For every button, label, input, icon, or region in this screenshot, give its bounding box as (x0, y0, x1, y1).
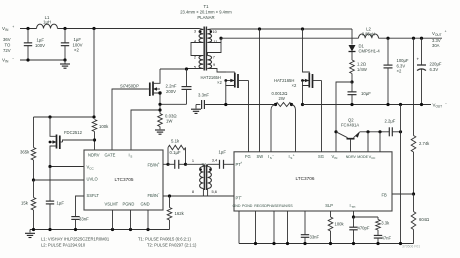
svg-text:1µF: 1µF (37, 38, 45, 43)
junction sync drain drop (301, 27, 304, 30)
label 1.2ohm 1/4W (357, 62, 367, 72)
pin ITH (350, 203, 356, 209)
svg-text:10µF: 10µF (361, 91, 371, 96)
junction sense right (290, 103, 293, 106)
svg-text:23.4mm × 20.1mm × 9.4mm: 23.4mm × 20.1mm × 9.4mm (180, 9, 232, 14)
resistor 5.1k (168, 145, 186, 164)
wire primary gnd rail (30, 229, 170, 231)
wire pin10 net (212, 28, 353, 30)
capacitor C-in2 1uF 100V x2 (61, 29, 69, 61)
pin FB/IN+ 3705 (148, 162, 160, 168)
svg-text:2W: 2W (279, 96, 285, 101)
junction bias node (350, 80, 353, 83)
svg-text:2.74k: 2.74k (419, 141, 430, 146)
label C-in1 (35, 38, 45, 48)
svg-text:SG: SG (318, 154, 324, 159)
svg-text:NDRV: NDRV (346, 155, 357, 159)
svg-text:MODE: MODE (357, 155, 368, 159)
label 10uF (361, 91, 371, 96)
label C-in2 (73, 37, 83, 53)
svg-text:−: − (445, 101, 447, 105)
svg-text:CMPSH1-4: CMPSH1-4 (359, 49, 381, 54)
label 3.3k (381, 221, 390, 226)
svg-text:GND: GND (233, 204, 241, 208)
label D1 (359, 44, 381, 54)
svg-text:72V: 72V (3, 48, 11, 53)
wire VCC drop (379, 132, 381, 152)
T2 pin34 label (212, 158, 218, 163)
svg-text:S: S (130, 155, 132, 159)
ground VIN- (60, 60, 70, 68)
svg-text:UVLO: UVLO (87, 176, 98, 181)
svg-text:+: + (417, 56, 420, 61)
label 5.1k (171, 139, 180, 144)
junction sense left (274, 103, 277, 106)
transistor FDC2512 (49, 117, 95, 167)
svg-text:FB/IN: FB/IN (148, 193, 159, 198)
pin SLP (325, 203, 333, 208)
T2 phase dot left (200, 168, 202, 170)
label sense (272, 91, 288, 101)
wire pin10 to D1 (351, 29, 353, 45)
svg-text:−: − (158, 192, 160, 196)
wire IS+ kelvin (292, 105, 296, 152)
svg-text:PLANAR: PLANAR (197, 15, 214, 20)
label Q2 FCX491A (341, 117, 359, 127)
label HAT2165H x2 FG (201, 75, 223, 85)
wire SW drop (259, 29, 261, 152)
wire L1 to T1 pin3 (58, 28, 200, 30)
junction 162k tap (168, 194, 171, 197)
wire VIN drop to node (93, 29, 95, 118)
svg-text:1W: 1W (166, 119, 173, 124)
wire to T2 primary top (186, 164, 204, 166)
junction SW drop (258, 27, 261, 30)
svg-text:+: + (12, 25, 14, 29)
svg-text:3,4: 3,4 (212, 158, 218, 163)
junction r3 (286, 242, 289, 245)
label 3.3V 30A (432, 38, 441, 48)
capacitor 0.1uF (168, 160, 186, 169)
svg-text:100V: 100V (35, 43, 45, 48)
junction rail 1uF (48, 228, 51, 231)
junction node-FDC drain (48, 115, 51, 118)
svg-text:30A: 30A (432, 43, 440, 48)
svg-text:36V: 36V (3, 37, 11, 42)
pin FG (245, 154, 251, 159)
svg-text:7: 7 (213, 55, 215, 60)
svg-text:33nF: 33nF (79, 217, 89, 222)
svg-text:1µH: 1µH (43, 19, 51, 24)
wire T2 left bottom (202, 189, 204, 197)
junction UVLO (32, 178, 35, 181)
junction NDRV gate-drive (93, 138, 96, 141)
junction divider top (412, 37, 415, 40)
op-amp U2 LTC3706 box (234, 152, 392, 211)
label 100uF (397, 58, 409, 74)
transistor Q-FG HAT2165H (224, 72, 248, 105)
svg-text:REGSD: REGSD (254, 204, 267, 208)
pin 9 label (213, 62, 215, 67)
junction VCC cap (48, 165, 51, 168)
wire FBIN+ line (163, 163, 168, 165)
svg-text:−: − (240, 194, 242, 198)
svg-text:GND: GND (141, 201, 150, 206)
svg-text:PGND: PGND (123, 201, 135, 206)
svg-text:LTC3706: LTC3706 (296, 176, 315, 181)
junction 100uF top (386, 37, 389, 40)
label T1 (203, 4, 209, 9)
label 220uF (430, 62, 442, 72)
label 33nF RUNSS (310, 235, 320, 240)
resistor 100k primary (92, 120, 97, 132)
svg-text:×2: ×2 (397, 69, 402, 74)
label FDC2512 (64, 130, 83, 135)
ground 3.3nF (191, 105, 201, 114)
transistor Q2 FCX491A (336, 132, 360, 152)
svg-text:0.1µF: 0.1µF (170, 150, 181, 155)
transformer T1 primary winding 3-4 (199, 30, 203, 43)
label L2 (362, 27, 375, 37)
pin REGSD (254, 204, 267, 208)
junction FB (412, 192, 415, 195)
svg-text:5.1k: 5.1k (171, 139, 180, 144)
capacitor 33nF SSFLT (71, 196, 84, 230)
pin VCC 3706 (369, 154, 376, 160)
wire PGND3706 down (255, 211, 257, 244)
ground primary rail (25, 230, 35, 238)
svg-text:2.2µF: 2.2µF (385, 119, 396, 124)
wire 1.2ohm to bias node (351, 74, 353, 83)
label 33nF SSFLT (79, 217, 89, 222)
pin NDRV (88, 153, 100, 158)
svg-text:FDC2512: FDC2512 (64, 130, 83, 135)
wire IS sense (131, 110, 160, 150)
junction r5 (329, 242, 332, 245)
wire secondary gnd rail right (303, 104, 432, 106)
pin MODE (357, 155, 368, 159)
capacitor 1uF PT (215, 160, 228, 169)
transformer T2 winding 1-8 (200, 167, 204, 189)
junction VIN+ C1 (26, 27, 29, 30)
svg-text:1: 1 (192, 158, 194, 163)
svg-text:GATE: GATE (105, 153, 116, 158)
svg-text:LTC3705: LTC3705 (115, 177, 134, 182)
label 1uF PT (219, 149, 227, 154)
junction VIN+ C2 (63, 27, 66, 30)
svg-text:365k: 365k (20, 150, 30, 155)
label 604 (419, 217, 429, 222)
junction VIN- C2 (63, 58, 66, 61)
junction 220uF top (420, 37, 423, 40)
pin VIN 3706 (332, 154, 338, 160)
resistor 1.2ohm (350, 60, 355, 74)
transformer T1 core (204, 27, 206, 71)
pin 3 label (194, 29, 196, 34)
resistor 604 (411, 194, 416, 230)
pin UVLO (87, 176, 98, 181)
pin 2 label (194, 55, 196, 60)
label HAT2165H x2 SG (274, 78, 297, 88)
svg-text:162k: 162k (175, 211, 185, 216)
junction Q2 collector (334, 130, 337, 133)
wire T1 pin3 lead (199, 29, 203, 30)
wire 2.74k to FB (413, 152, 415, 194)
capacitor 2.2uF (387, 127, 401, 136)
pin SG (318, 154, 324, 159)
wire GND3706 down (238, 211, 240, 244)
capacitor 1uF VCC (46, 167, 54, 230)
wire centertap up (220, 38, 222, 42)
junction 220uF gnd (420, 103, 423, 106)
capacitor 10uF (348, 82, 357, 105)
svg-text:+: + (240, 161, 242, 165)
node VIN- label (2, 57, 14, 64)
capacitor C-in1 1uF 100V (24, 29, 32, 61)
junction gnddrop top (399, 103, 402, 106)
transformer T1 secondary winding 10-11 (207, 30, 211, 43)
inductor L1 (37, 24, 58, 28)
svg-text:PHASE: PHASE (267, 204, 280, 208)
wire drain node (160, 68, 187, 70)
svg-text:FG: FG (245, 154, 251, 159)
svg-text:FCX491A: FCX491A (341, 122, 359, 127)
label 2.74k (419, 141, 430, 146)
capacitor 47nF (374, 230, 382, 244)
svg-text:PGND: PGND (242, 204, 253, 208)
resistor 15k (31, 180, 36, 230)
wire T1 pin5 lead (187, 68, 204, 71)
T2 pin1 label (192, 158, 194, 163)
svg-text:3.3nF: 3.3nF (198, 93, 209, 98)
transformer T2 winding 3,4-5,6 (208, 167, 212, 189)
node VOUT+ label (432, 30, 447, 37)
junction SG source rail (301, 103, 304, 106)
ground 0.03ohm (155, 127, 165, 135)
junction fb rc right (184, 163, 187, 166)
transformer T1 primary winding 2-5 (199, 56, 203, 69)
svg-text:100k: 100k (335, 222, 345, 227)
svg-text:VSLMT: VSLMT (105, 201, 119, 206)
svg-text:×2: ×2 (292, 83, 297, 88)
svg-text:3.3k: 3.3k (381, 221, 390, 226)
T2 pin56 label (212, 189, 217, 194)
label LTC3705 (115, 177, 134, 182)
wire T1 pin11 centertap jog (207, 43, 221, 56)
junction r1 (254, 242, 257, 245)
wire centertap rail (221, 37, 359, 39)
inductor L2 (359, 34, 379, 38)
junction fb rc left (166, 163, 169, 166)
resistor 100k SLP (328, 211, 333, 244)
svg-text:+: + (158, 162, 160, 166)
wire divider drop (413, 38, 415, 135)
svg-text:2.2nF: 2.2nF (166, 83, 177, 88)
svg-text:FB/IN: FB/IN (148, 163, 159, 168)
transformer T1 secondary winding 7-9 (207, 56, 211, 69)
svg-text:6.3V: 6.3V (430, 67, 439, 72)
wire bias to VIN pin (336, 82, 352, 152)
junction r6 (352, 242, 355, 245)
svg-text:T1: PULSE PA0815 (6:6:2:1): T1: PULSE PA0815 (6:6:2:1) (138, 237, 191, 242)
pin NDRV 3706 (346, 155, 357, 159)
svg-text:15k: 15k (21, 201, 29, 206)
pin IS+ (289, 153, 295, 160)
svg-text:470pF: 470pF (358, 226, 370, 231)
svg-text:SSFLT: SSFLT (87, 193, 100, 198)
junction node-100k (92, 115, 95, 118)
svg-text:1/4W: 1/4W (357, 67, 367, 72)
wire FB (392, 193, 414, 195)
junction MODE tap (366, 130, 369, 133)
label 47nF (382, 236, 392, 241)
svg-text:NDRV: NDRV (88, 153, 100, 158)
junction rail GND (146, 228, 149, 231)
wire VSLMT down (112, 210, 114, 230)
label 2.2nF 200V (166, 83, 177, 94)
resistor 365k (31, 117, 36, 180)
wire VIN+ rail (20, 28, 37, 30)
wire UVLO (34, 179, 85, 181)
svg-text:1µF: 1µF (219, 149, 227, 154)
junction IS tap (158, 108, 161, 111)
wire L2 to VOUT+ (379, 37, 443, 39)
op-amp U1 LTC3705 box (84, 150, 163, 210)
diode D1 CMPSH1-4 (349, 45, 356, 60)
wire PHASE down (287, 211, 289, 244)
watermark (402, 244, 420, 248)
wire FBIN- line (163, 195, 234, 197)
wire T1 pin4-pin2 series jog (191, 43, 203, 56)
label 100k SLP (335, 222, 345, 227)
svg-text:100µF: 100µF (397, 58, 409, 63)
svg-text:−: − (12, 57, 14, 61)
wire secondary bottom rail (239, 243, 414, 245)
junction r4 (303, 242, 306, 245)
capacitor 100uF 6.3V x2 (384, 38, 393, 104)
junction VIN+ drop (92, 27, 95, 30)
junction drain-2.2nF (185, 67, 188, 70)
svg-text:CC: CC (371, 156, 375, 160)
wire GND down (147, 210, 149, 230)
pin GATE (105, 153, 116, 158)
label 365k (20, 150, 30, 155)
svg-text:SLP: SLP (325, 203, 333, 208)
svg-text:47nF: 47nF (382, 236, 392, 241)
label 1uF VCC (57, 201, 65, 206)
pin IS- (268, 153, 274, 160)
svg-text:CC: CC (89, 167, 94, 171)
junction r2 (272, 242, 275, 245)
pin GND 3705 (141, 201, 150, 206)
note line2 (41, 242, 197, 247)
pin RUN/SS (279, 204, 293, 208)
svg-text:604Ω: 604Ω (419, 217, 429, 222)
junction r7 (376, 242, 379, 245)
wire PGND down (130, 210, 132, 230)
label 2.2uF (385, 119, 396, 124)
junction rail PGND (129, 228, 132, 231)
svg-text:6.3V: 6.3V (397, 63, 406, 68)
wire VCC net (360, 131, 388, 133)
wire node horizontal (34, 116, 95, 118)
svg-text:370506 F01: 370506 F01 (402, 244, 420, 248)
wire T2 right bottom (207, 189, 209, 197)
svg-text:3: 3 (194, 29, 196, 34)
capacitor 470pF (349, 217, 357, 244)
wire IS- kelvin (271, 105, 276, 152)
wire SG gate drop (321, 81, 323, 152)
svg-text:8: 8 (192, 189, 194, 194)
capacitor 2.2nF 200V (160, 69, 192, 104)
label 100k primary (99, 124, 109, 129)
T1 phase dot secondary (210, 31, 212, 33)
label 0.03ohm 1W (165, 114, 177, 124)
junction rail 365k (32, 228, 35, 231)
pin GND 3706 (233, 204, 241, 208)
svg-text:IN: IN (334, 156, 337, 160)
pin 5 label (194, 64, 196, 69)
pin IS (129, 153, 133, 159)
wire 100k to NDRV (94, 132, 96, 151)
svg-text:1µF: 1µF (57, 201, 65, 206)
junction centertap (219, 37, 222, 40)
wire VCC line (50, 166, 84, 168)
transistor Si7450DP (112, 69, 162, 150)
svg-text:T1: T1 (203, 4, 209, 9)
junction VCC tap (378, 130, 381, 133)
svg-text:−: − (272, 153, 274, 157)
svg-text:+: + (293, 153, 295, 157)
svg-text:SW: SW (257, 154, 264, 159)
junction 2.2uF gnd (399, 130, 402, 133)
T2 pin8 label (192, 189, 194, 194)
svg-text:L1: VISHAY IHLP2525CZER1R0M01: L1: VISHAY IHLP2525CZER1R0M01 (41, 237, 110, 242)
pin PT- (236, 194, 243, 200)
wire ITH down (353, 211, 355, 217)
resistor sense 0.0012ohm (276, 103, 292, 107)
wire T1 pin9 lead (207, 69, 226, 73)
pin 7 label (213, 55, 215, 60)
svg-text:33nF: 33nF (310, 235, 320, 240)
transistor Q-SG HAT2165H (301, 29, 321, 105)
junction rail VSLMT (111, 228, 114, 231)
wire T1 pin10 lead (207, 28, 211, 31)
T1 phase dot primary (199, 31, 201, 33)
transformer T2 core (204, 165, 206, 191)
pin PGND 3706 (242, 204, 253, 208)
pin VCC 3705 (87, 165, 95, 171)
pin SSFLT (87, 193, 100, 198)
capacitor 33nF RUN/SS (301, 211, 309, 244)
label 0.1uF (170, 150, 181, 155)
svg-text:11: 11 (214, 39, 218, 44)
svg-text:FB: FB (382, 193, 388, 198)
pin 10 label (213, 29, 218, 34)
label LTC3706 (296, 176, 315, 181)
wire gnd drop (400, 105, 402, 244)
resistor 3.3k (376, 217, 381, 230)
junction r8 (399, 242, 402, 245)
wire secondary gnd rail left (206, 104, 276, 106)
pin PT+ (236, 161, 243, 167)
pin PHASE (267, 204, 280, 208)
T2 phase dot right (209, 168, 211, 170)
junction 10uF gnd (350, 103, 353, 106)
node VIN+ label (2, 25, 14, 32)
pin PGND 3705 (123, 201, 135, 206)
wire REGSD down (273, 211, 275, 244)
